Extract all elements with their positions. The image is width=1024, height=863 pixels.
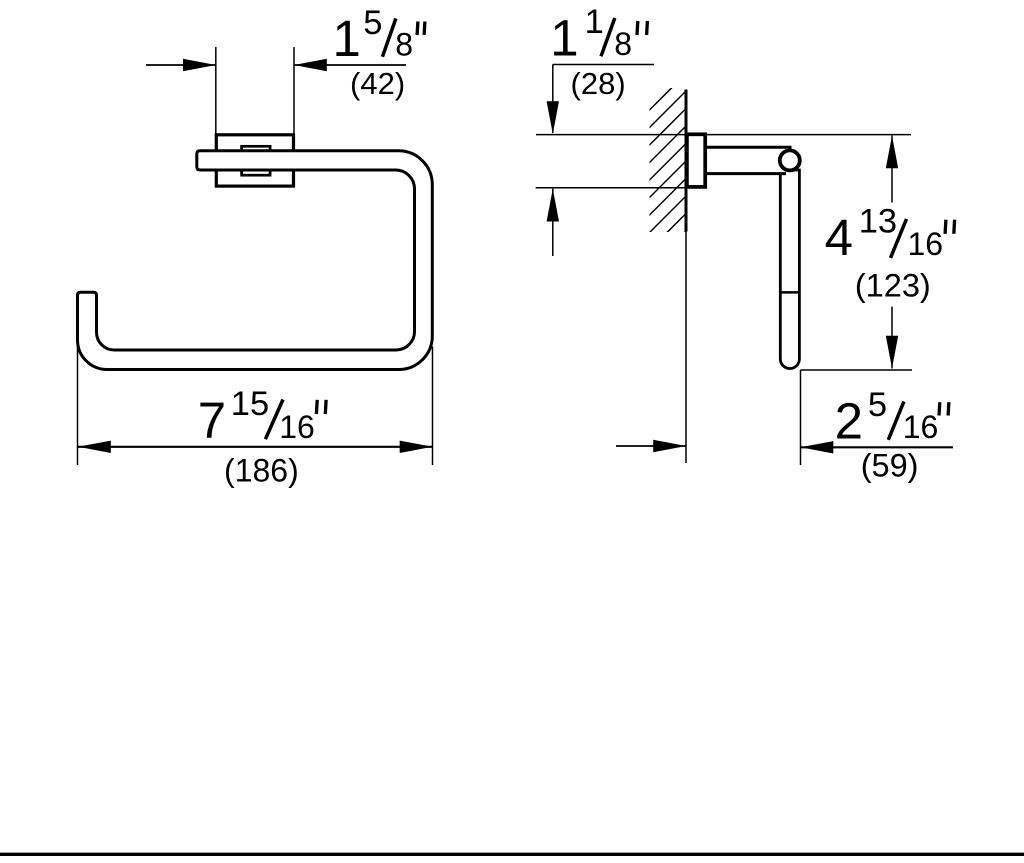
arrow 42mm pointing left bbox=[294, 59, 327, 71]
svg-text:(123): (123) bbox=[855, 267, 931, 303]
svg-text:5: 5 bbox=[363, 4, 382, 42]
svg-text:1: 1 bbox=[585, 3, 604, 41]
svg-text:5: 5 bbox=[868, 386, 887, 424]
joint tick on bar bbox=[780, 291, 799, 294]
svg-text:16: 16 bbox=[903, 409, 939, 445]
fraction slash bbox=[382, 18, 396, 56]
inch marks bbox=[939, 402, 949, 415]
extension line right of 186mm dim bbox=[432, 347, 434, 466]
fraction slash bbox=[601, 18, 615, 56]
top reference line bbox=[536, 134, 911, 136]
arrow 59mm pointing left bbox=[801, 441, 834, 453]
svg-text:2: 2 bbox=[835, 392, 863, 449]
arrow 186mm pointing left bbox=[78, 441, 111, 453]
text underline 1 1/8 bbox=[553, 64, 654, 66]
arrow 123mm pointing up bbox=[886, 136, 898, 169]
svg-text:(59): (59) bbox=[861, 447, 919, 483]
wall hatching bbox=[648, 72, 688, 270]
inch marks bbox=[316, 400, 326, 414]
fraction slash bbox=[265, 400, 283, 440]
svg-text:8: 8 bbox=[614, 26, 632, 62]
arrow 59mm pointing right bbox=[653, 440, 686, 452]
vert dim line 28mm upper bbox=[552, 65, 554, 134]
dim line 59mm right part bbox=[801, 446, 954, 448]
fraction slash bbox=[888, 402, 904, 440]
bottom page rule bbox=[0, 853, 1024, 856]
svg-text:16: 16 bbox=[908, 226, 944, 262]
bottom reference line (123mm) bbox=[801, 369, 913, 371]
dim line 42mm left tail bbox=[146, 64, 216, 66]
svg-text:(28): (28) bbox=[571, 66, 626, 101]
svg-text:13: 13 bbox=[859, 202, 897, 240]
svg-text:8: 8 bbox=[395, 27, 413, 63]
bar extension line down bbox=[800, 370, 802, 465]
arrow 28mm pointing up bbox=[547, 189, 559, 222]
arrow 186mm pointing right bbox=[400, 441, 433, 453]
arm (side view of top bar) bbox=[705, 149, 789, 173]
mounting plate (front) bbox=[216, 135, 293, 186]
inch marks bbox=[637, 21, 647, 35]
dim line 59mm left tail bbox=[616, 445, 686, 447]
extension line right of 42mm dim bbox=[293, 47, 295, 134]
svg-text:1: 1 bbox=[333, 10, 361, 67]
svg-text:(42): (42) bbox=[350, 66, 405, 101]
dim line 42mm right tail bbox=[294, 64, 406, 66]
towel ring body (front view tube) bbox=[78, 151, 433, 370]
fraction slash bbox=[891, 219, 907, 258]
svg-text:15: 15 bbox=[231, 385, 269, 423]
inch marks bbox=[945, 220, 955, 234]
wall extension line down bbox=[685, 231, 687, 463]
screw tab upper bbox=[242, 146, 271, 152]
mounting plate (side) bbox=[687, 134, 705, 187]
extension line left of 186mm dim bbox=[77, 341, 79, 465]
arrow 28mm pointing down bbox=[547, 101, 559, 134]
svg-text:4: 4 bbox=[825, 209, 853, 266]
screw tab lower bbox=[242, 170, 271, 175]
svg-text:16: 16 bbox=[279, 409, 315, 445]
wall line bbox=[685, 90, 688, 232]
vert dim line 28mm lower bbox=[552, 189, 554, 256]
vert dim 123mm upper segment bbox=[891, 136, 893, 203]
svg-text:(186): (186) bbox=[224, 452, 299, 488]
arrow 42mm pointing right bbox=[183, 59, 216, 71]
second reference line (28mm) bbox=[536, 187, 686, 189]
vertical bar (side view of ring) bbox=[780, 170, 799, 369]
pivot circle bbox=[780, 150, 800, 170]
inch marks bbox=[417, 22, 425, 36]
extension line left of 42mm dim bbox=[215, 47, 217, 134]
svg-text:7: 7 bbox=[198, 392, 226, 449]
svg-text:1: 1 bbox=[550, 10, 578, 67]
arrow 123mm pointing down bbox=[886, 336, 898, 369]
dim line 186mm bbox=[78, 446, 433, 448]
vert dim 123mm lower segment bbox=[891, 307, 893, 369]
